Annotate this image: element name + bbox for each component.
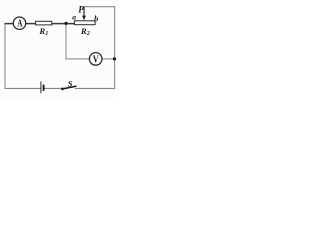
node A: junction after R1 bbox=[64, 22, 67, 25]
node B: junction of voltmeter lead on right wire bbox=[113, 57, 116, 60]
slider arrow P of rheostat bbox=[82, 7, 86, 21]
wire: right side vertical bbox=[114, 6, 116, 89]
wire: R1 to node A and on to R2 terminal a bbox=[52, 23, 75, 25]
wire: ammeter to R1 bbox=[26, 23, 36, 25]
wire: battery to switch pivot bbox=[45, 87, 62, 89]
svg-text:b: b bbox=[94, 13, 98, 23]
wire: voltmeter right lead to node B on right wire bbox=[102, 58, 115, 60]
voltmeter V bbox=[89, 53, 102, 66]
wire: bottom from left corner to battery bbox=[5, 87, 41, 89]
wire: switch to bottom-right corner bbox=[75, 87, 115, 89]
rheostat R2 body bbox=[74, 21, 95, 25]
switch S pivot contact bbox=[61, 88, 64, 91]
wire: top main from left corner to ammeter bbox=[5, 23, 14, 25]
svg-text:P: P bbox=[78, 4, 84, 14]
switch S lever bbox=[63, 86, 77, 89]
svg-text:a: a bbox=[72, 13, 76, 22]
svg-text:S: S bbox=[68, 78, 73, 88]
ammeter A bbox=[13, 17, 25, 30]
svg-text:V: V bbox=[93, 54, 100, 65]
wire: top lead from slider P to top-right corner bbox=[84, 6, 115, 8]
wire: left side vertical bbox=[4, 23, 6, 88]
resistor R1 bbox=[36, 21, 52, 25]
wire: voltmeter branch vertical from node A down bbox=[65, 23, 67, 59]
battery cell: short thick plate bbox=[43, 85, 45, 91]
battery cell: long thin plate bbox=[40, 81, 42, 93]
svg-text:A: A bbox=[17, 19, 23, 30]
wire: voltmeter branch horizontal to voltmeter bbox=[66, 58, 90, 60]
